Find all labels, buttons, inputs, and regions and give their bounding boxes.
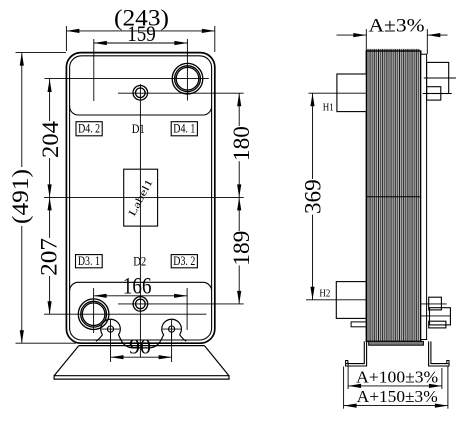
port D2 circles: [133, 297, 148, 312]
D2 centerline: [118, 303, 244, 305]
svg-text:204: 204: [38, 120, 63, 158]
svg-text:166: 166: [123, 274, 152, 299]
svg-text:159: 159: [127, 21, 156, 46]
svg-text:D4. 2: D4. 2: [78, 122, 100, 136]
svg-text:189: 189: [229, 231, 254, 266]
H2 connection: [336, 282, 366, 319]
D1 centerline: [118, 92, 244, 94]
bottom band line: [70, 282, 212, 291]
svg-text:D3. 1: D3. 1: [78, 254, 100, 268]
right foot: [429, 341, 449, 366]
svg-text:D1: D1: [132, 122, 145, 136]
mounting hole right: [169, 326, 175, 332]
svg-text:A+100±3%: A+100±3%: [356, 368, 438, 387]
dim 166: [94, 295, 188, 297]
svg-text:H2: H2: [319, 288, 330, 300]
label box D3.1: [76, 255, 103, 268]
label box D4.1: [171, 122, 197, 136]
front view outer shell: [66, 53, 214, 344]
port D4.1 circles: [172, 63, 203, 94]
top ports centerline: [45, 78, 209, 80]
left foot: [346, 341, 367, 366]
dim 180: [238, 93, 240, 126]
dim (491): [16, 52, 67, 54]
dim 189: [238, 197, 240, 231]
mounting bracket wave: [101, 319, 182, 348]
bottom right connection small: [429, 297, 442, 310]
svg-text:207: 207: [37, 238, 62, 276]
svg-text:A±3%: A±3%: [369, 16, 425, 37]
label box D4.2: [76, 122, 102, 136]
mid centerline: [44, 196, 244, 198]
port D1 circles: [133, 86, 148, 101]
mounting hole left: [107, 326, 113, 332]
H1 centerline: [309, 92, 367, 94]
dim A+150±3%: [343, 367, 345, 409]
dim 369: [312, 93, 314, 179]
bottom right centerlines: [421, 303, 447, 305]
port D3.2 vertical centerline: [186, 288, 188, 330]
dim 204: [49, 79, 51, 121]
bottom right connection big: [430, 308, 451, 325]
svg-text:369: 369: [300, 179, 325, 214]
side view plate stack: [366, 51, 421, 341]
dim (243): [65, 26, 67, 51]
dim 90: [110, 332, 112, 362]
dim 207: [49, 197, 51, 238]
left lower tab: [351, 322, 366, 327]
port D4.2 vertical centerline: [93, 39, 95, 101]
svg-text:H1: H1: [323, 102, 334, 114]
top right connection small: [427, 87, 441, 100]
front view inner contour: [70, 56, 212, 340]
vertical centerline: [139, 84, 141, 357]
H2 centerline: [306, 299, 366, 301]
bottom right tab: [429, 321, 446, 328]
label box D3.2: [171, 255, 197, 268]
port D3.1 circles: [78, 299, 109, 330]
base pedestal: [79, 345, 205, 347]
right cover plate: [421, 54, 427, 339]
bottom cover plate: [369, 341, 424, 345]
dim A±3%: [365, 29, 367, 51]
side view plate stack serrated top: [367, 49, 420, 51]
bottom ports centerline: [44, 313, 206, 315]
svg-text:D2: D2: [133, 254, 146, 268]
top right connection big: [427, 62, 449, 93]
svg-text:D3. 2: D3. 2: [173, 254, 195, 268]
svg-text:(491): (491): [8, 169, 33, 224]
nameplate rect Label1: [124, 169, 158, 226]
svg-text:D4. 1: D4. 1: [173, 122, 195, 136]
svg-text:90: 90: [129, 334, 151, 358]
svg-text:180: 180: [229, 126, 254, 161]
H1 connection: [337, 74, 366, 112]
dim A+100±3%: [347, 362, 349, 389]
svg-text:A+150±3%: A+150±3%: [357, 387, 438, 406]
top right centerlines: [424, 77, 456, 79]
side view mid line: [366, 196, 426, 198]
port D4.1 vertical centerline: [186, 39, 188, 101]
dim 159: [94, 42, 188, 44]
port D3.1 vertical centerline: [93, 288, 95, 333]
top band line: [70, 106, 212, 115]
